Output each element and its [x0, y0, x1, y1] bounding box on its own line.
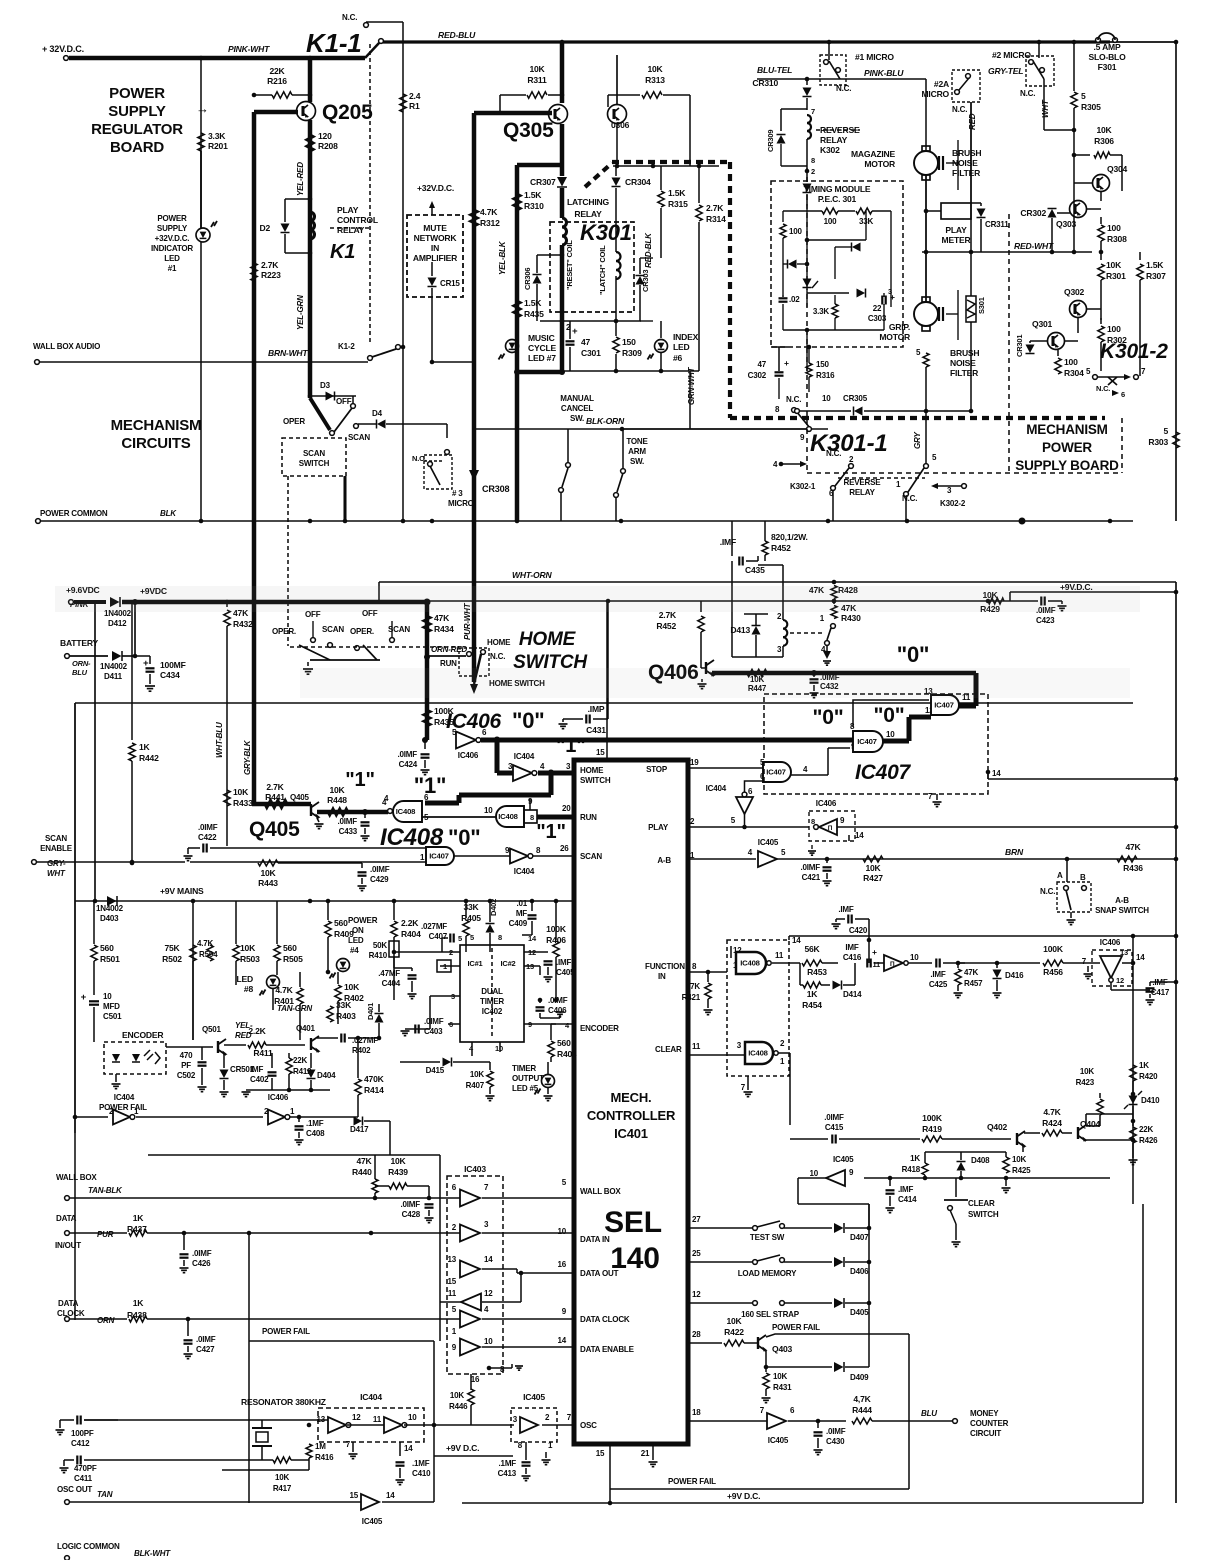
svg-text:BLK-WHT: BLK-WHT [134, 1549, 171, 1558]
capacitor C421 [825, 857, 830, 862]
svg-text:4.7K: 4.7K [197, 939, 214, 948]
svg-text:R312: R312 [480, 218, 500, 228]
svg-text:6: 6 [452, 1183, 457, 1192]
diode D415 [400, 1061, 440, 1063]
svg-text:ARM: ARM [628, 447, 646, 456]
magazine motor [914, 151, 938, 175]
svg-text:IC405: IC405 [523, 1392, 545, 1402]
resistor R412 [288, 1053, 290, 1058]
svg-text:1: 1 [896, 480, 901, 489]
svg-text:CR310: CR310 [752, 78, 778, 88]
resistor R447 on heavy [747, 670, 767, 676]
svg-text:R308: R308 [1107, 234, 1127, 244]
wire [540, 370, 699, 372]
svg-text:15: 15 [596, 1449, 605, 1458]
resistor R416 [308, 1425, 310, 1444]
svg-text:TIMER: TIMER [512, 1064, 536, 1073]
svg-text:11: 11 [692, 1042, 701, 1051]
svg-text:10K: 10K [726, 1316, 742, 1326]
svg-text:27: 27 [692, 1215, 701, 1224]
svg-text:100: 100 [824, 217, 838, 226]
svg-text:18: 18 [692, 1408, 701, 1417]
svg-text:LATCHING: LATCHING [567, 197, 609, 207]
resistor R435 [424, 710, 431, 726]
dashed IC405 box [511, 1408, 557, 1442]
svg-text:7: 7 [484, 1183, 489, 1192]
svg-text:C420: C420 [849, 926, 868, 935]
svg-text:14: 14 [1136, 953, 1145, 962]
svg-text:1K: 1K [133, 1298, 145, 1308]
dashed board boundary [806, 168, 808, 473]
svg-text:1K: 1K [1139, 1061, 1149, 1070]
svg-text:CIRCUITS: CIRCUITS [121, 435, 190, 452]
svg-text:R452: R452 [771, 543, 791, 553]
wire [613, 165, 719, 167]
svg-text:10K: 10K [470, 1070, 485, 1079]
svg-text:C408: C408 [306, 1129, 325, 1138]
resistor R308 [1100, 217, 1102, 224]
capacitor C408x [317, 1037, 338, 1039]
svg-text:"0": "0" [874, 704, 905, 727]
svg-text:MFD: MFD [103, 1002, 120, 1011]
svg-text:3: 3 [947, 486, 952, 495]
svg-text:R439: R439 [388, 1167, 408, 1177]
svg-text:POWER FAIL: POWER FAIL [668, 1477, 716, 1486]
transistor Q305 [549, 105, 568, 124]
svg-text:R401: R401 [274, 996, 294, 1006]
svg-text:SCAN: SCAN [580, 852, 602, 861]
svg-text:Q405: Q405 [249, 818, 300, 841]
resistor R411 [224, 1044, 246, 1046]
resistor R503 [235, 901, 237, 944]
svg-text:R420: R420 [1139, 1072, 1158, 1081]
svg-text:5: 5 [781, 848, 786, 857]
resistor R432 [226, 602, 228, 607]
svg-text:SUPPLY: SUPPLY [108, 103, 166, 120]
svg-text:4: 4 [540, 762, 545, 771]
svg-text:1: 1 [780, 1057, 785, 1066]
transistor Q405 [310, 804, 312, 816]
svg-text:BRUSH: BRUSH [952, 148, 981, 158]
svg-text:YEL-BLK: YEL-BLK [498, 240, 507, 275]
diode into timing [803, 184, 812, 193]
diode D408 [959, 1176, 964, 1181]
svg-text:SCAN: SCAN [348, 433, 370, 442]
capacitor .02 [779, 297, 788, 299]
svg-text:R425: R425 [1012, 1166, 1031, 1175]
diode D411 [70, 655, 108, 657]
svg-text:R441: R441 [265, 792, 285, 802]
svg-text:100: 100 [1064, 357, 1078, 367]
svg-text:N.C.: N.C. [826, 449, 841, 458]
svg-text:LED: LED [673, 342, 690, 352]
svg-text:4: 4 [773, 460, 778, 469]
svg-text:R402: R402 [352, 1046, 371, 1055]
svg-text:IC407: IC407 [766, 768, 786, 777]
svg-text:47: 47 [581, 337, 591, 347]
svg-text:FUNCTION: FUNCTION [645, 962, 685, 971]
svg-text:CLOCK: CLOCK [57, 1309, 85, 1318]
capacitor C412 [68, 1419, 86, 1421]
wire heavy run [537, 815, 574, 820]
svg-text:REGULATOR: REGULATOR [91, 121, 183, 138]
svg-text:SUPPLY: SUPPLY [157, 224, 188, 233]
svg-text:100: 100 [1107, 223, 1121, 233]
svg-text:8: 8 [692, 962, 697, 971]
dual timer IC402 [460, 945, 524, 1042]
wire rail R442 [131, 602, 133, 740]
relay coil K1 [310, 212, 315, 221]
svg-text:RUN: RUN [440, 659, 457, 668]
svg-text:160 SEL STRAP: 160 SEL STRAP [741, 1310, 800, 1319]
svg-text:R452: R452 [656, 621, 676, 631]
svg-text:CR308: CR308 [482, 484, 509, 494]
svg-text:SCAN: SCAN [303, 449, 325, 458]
svg-text:7: 7 [760, 1406, 765, 1415]
wire [379, 1037, 460, 1039]
svg-text:Q403: Q403 [772, 1344, 793, 1354]
svg-text:BLK-ORN: BLK-ORN [586, 416, 625, 426]
svg-text:+: + [872, 947, 877, 957]
svg-text:R432: R432 [233, 619, 253, 629]
svg-text:ENCODER: ENCODER [580, 1024, 619, 1033]
wire osc to ic405 [434, 1424, 514, 1426]
resistor R420 [1132, 1060, 1134, 1064]
svg-text:OPER: OPER [283, 417, 305, 426]
resistor R309 [615, 321, 617, 336]
svg-text:B: B [1080, 873, 1086, 882]
wire [689, 371, 691, 429]
svg-text:.0IMF: .0IMF [196, 1335, 216, 1344]
svg-text:ON: ON [352, 926, 364, 935]
svg-text:R223: R223 [261, 270, 281, 280]
svg-text:100K: 100K [1043, 944, 1064, 954]
svg-text:.0IMF: .0IMF [801, 863, 821, 872]
wire dataout link [370, 1233, 372, 1262]
relay reset coil [562, 218, 567, 227]
dashed IC408 box [727, 940, 789, 1076]
svg-text:INDEX: INDEX [673, 332, 699, 342]
node junction [199, 56, 204, 61]
svg-text:.02: .02 [789, 295, 800, 304]
resistor R414 [357, 1038, 359, 1078]
svg-text:7: 7 [346, 1440, 351, 1449]
svg-text:CONTROL: CONTROL [337, 215, 378, 225]
svg-text:GRIP.: GRIP. [889, 322, 910, 332]
svg-text:C433: C433 [339, 827, 358, 836]
resistor R505 [276, 901, 278, 944]
svg-text:MECHANISM: MECHANISM [1026, 422, 1107, 437]
svg-text:HOME: HOME [519, 629, 577, 650]
svg-text:R456: R456 [1043, 967, 1063, 977]
resistor R424 [1024, 1132, 1040, 1134]
svg-text:2: 2 [777, 612, 782, 621]
svg-text:SCAN: SCAN [45, 834, 67, 843]
resistor R307 [1139, 252, 1141, 260]
svg-text:R448: R448 [327, 795, 347, 805]
svg-text:5: 5 [458, 934, 462, 943]
svg-text:P.E.C. 301: P.E.C. 301 [818, 194, 857, 204]
svg-text:R208: R208 [318, 141, 338, 151]
capacitor C426 [182, 1231, 187, 1236]
resistor R425 [1004, 1176, 1009, 1181]
svg-text:8: 8 [518, 1441, 523, 1450]
svg-text:IC407: IC407 [934, 701, 954, 710]
resistor 3.3K [832, 304, 838, 318]
switch #1 micro [820, 55, 846, 85]
svg-text:7: 7 [741, 1083, 746, 1092]
svg-text:CR302: CR302 [1020, 208, 1046, 218]
svg-text:OSC OUT: OSC OUT [57, 1485, 92, 1494]
capacitor C409 [531, 901, 533, 911]
svg-text:1.5K: 1.5K [524, 298, 542, 308]
resistor R433 [224, 790, 230, 806]
crystal Y1 [261, 1420, 263, 1428]
svg-text:2.7K: 2.7K [261, 260, 279, 270]
svg-text:D2: D2 [259, 223, 270, 233]
svg-text:1N4002: 1N4002 [96, 904, 124, 913]
svg-text:C430: C430 [826, 1437, 845, 1446]
svg-text:K1-1: K1-1 [306, 28, 362, 58]
svg-text:0306: 0306 [611, 120, 630, 130]
svg-text:C434: C434 [160, 670, 180, 680]
svg-text:26: 26 [560, 844, 569, 853]
svg-text:7: 7 [1082, 957, 1087, 966]
svg-text:10K: 10K [450, 1391, 465, 1400]
svg-text:POWER: POWER [109, 85, 165, 102]
svg-text:R453: R453 [807, 967, 827, 977]
svg-text:10: 10 [822, 394, 831, 403]
svg-text:"0": "0" [813, 706, 844, 729]
SCR t3 [803, 279, 812, 288]
svg-text:R305: R305 [1081, 102, 1101, 112]
svg-text:16: 16 [471, 1375, 480, 1384]
transistor Q306 [616, 55, 618, 104]
svg-text:R416: R416 [315, 1453, 334, 1462]
svg-text:MOTOR: MOTOR [879, 332, 910, 342]
resistor R223 [251, 263, 257, 281]
wire [188, 1318, 460, 1320]
svg-text:+: + [81, 992, 87, 1003]
svg-text:WHT-BLU: WHT-BLU [215, 722, 224, 758]
resistor R314 [698, 166, 700, 203]
svg-text:1K: 1K [139, 742, 151, 752]
diode D412 [74, 600, 106, 604]
svg-text:10: 10 [809, 1169, 818, 1178]
svg-text:8: 8 [811, 156, 815, 165]
svg-text:CYCLE: CYCLE [528, 343, 556, 353]
svg-text:IC408: IC408 [740, 959, 760, 968]
svg-text:C416: C416 [843, 953, 862, 962]
resistor R406 [555, 901, 557, 940]
svg-text:R404: R404 [401, 929, 421, 939]
resistor R407 [489, 1062, 491, 1070]
svg-text:1.5K: 1.5K [668, 188, 686, 198]
svg-text:CR301: CR301 [1015, 335, 1024, 357]
svg-text:RED: RED [968, 113, 977, 130]
node 14 [986, 770, 991, 775]
svg-text:CR306: CR306 [523, 268, 532, 290]
svg-text:R405: R405 [461, 913, 481, 923]
svg-text:"0": "0" [897, 642, 930, 667]
svg-text:2: 2 [849, 455, 854, 464]
svg-text:C411: C411 [74, 1474, 93, 1483]
svg-text:5: 5 [916, 348, 921, 357]
money counter [953, 1419, 958, 1424]
svg-text:CR307: CR307 [530, 177, 556, 187]
svg-text:SW.: SW. [630, 457, 644, 466]
svg-text:"1": "1" [414, 773, 447, 798]
svg-text:#4: #4 [350, 946, 359, 955]
svg-text:IC404: IC404 [706, 784, 727, 793]
wire [191, 899, 196, 904]
svg-text:10K: 10K [390, 1156, 406, 1166]
svg-text:PINK-WHT: PINK-WHT [228, 44, 270, 54]
wire [783, 329, 884, 331]
svg-text:FILTER: FILTER [952, 168, 980, 178]
svg-text:TAN: TAN [97, 1490, 113, 1499]
svg-text:6: 6 [424, 793, 429, 802]
svg-text:15: 15 [596, 748, 605, 757]
wire dashed [287, 476, 289, 646]
svg-text:14: 14 [484, 1255, 493, 1264]
svg-text:C426: C426 [192, 1259, 211, 1268]
svg-text:11: 11 [872, 960, 880, 969]
resistor R402 [337, 972, 339, 984]
svg-text:R504: R504 [199, 950, 218, 959]
svg-text:N.C.: N.C. [902, 494, 917, 503]
dashed IC403 box [447, 1176, 503, 1374]
svg-text:IMF: IMF [845, 943, 859, 952]
wire power fail vert [439, 1155, 441, 1341]
svg-text:2.4: 2.4 [409, 91, 421, 101]
svg-text:IC408: IC408 [498, 812, 518, 821]
svg-text:R442: R442 [139, 753, 159, 763]
resistor R1 [400, 94, 406, 112]
svg-text:10K: 10K [275, 1473, 290, 1482]
svg-text:D4: D4 [372, 409, 383, 418]
svg-text:DATA IN: DATA IN [580, 1235, 610, 1244]
svg-text:16: 16 [557, 1260, 566, 1269]
svg-text:R310: R310 [524, 201, 544, 211]
diode CR501 [223, 1053, 225, 1068]
svg-text:PLAY: PLAY [945, 225, 967, 235]
wire [723, 1204, 725, 1207]
dashed IC407 box [764, 694, 988, 794]
capacitor C405 [547, 952, 549, 957]
svg-text:POWER: POWER [157, 214, 187, 223]
svg-text:#1: #1 [168, 264, 177, 273]
svg-text:8: 8 [775, 405, 780, 414]
svg-text:R423: R423 [1076, 1078, 1095, 1087]
svg-text:R443: R443 [258, 878, 278, 888]
svg-text:MONEY: MONEY [970, 1409, 999, 1418]
diode CR15 [431, 262, 433, 276]
svg-text:CIRCUIT: CIRCUIT [970, 1429, 1001, 1438]
svg-text:K302: K302 [820, 145, 840, 155]
svg-text:MUSIC: MUSIC [528, 333, 555, 343]
wire PUR-WHT heavy [472, 648, 477, 682]
svg-text:C402: C402 [250, 1075, 269, 1084]
wire encoder pin [551, 1023, 574, 1025]
wire dashed linkage [290, 646, 459, 648]
svg-text:MECH.: MECH. [611, 1090, 652, 1105]
svg-text:R431: R431 [773, 1383, 792, 1392]
svg-text:7: 7 [567, 1413, 572, 1422]
svg-text:SWITCH: SWITCH [299, 459, 330, 468]
svg-text:BRN: BRN [1005, 847, 1024, 857]
svg-text:3.3K: 3.3K [813, 307, 830, 316]
svg-text:D404: D404 [317, 1071, 336, 1080]
svg-text:CR305: CR305 [843, 394, 868, 403]
svg-text:N.C.: N.C. [952, 105, 967, 114]
wire heavy Q305 collector [560, 42, 565, 103]
capacitor C302 [775, 371, 784, 373]
svg-text:OUTPUT: OUTPUT [512, 1074, 544, 1083]
svg-text:IC403: IC403 [464, 1164, 486, 1174]
svg-text:ORN-: ORN- [72, 659, 91, 668]
svg-text:R446: R446 [449, 1402, 468, 1411]
resistor R436 [1065, 857, 1070, 862]
svg-text:PF: PF [181, 1061, 191, 1070]
svg-text:100K: 100K [922, 1113, 943, 1123]
wire base heavy [474, 111, 552, 116]
svg-text:GRY-TEL: GRY-TEL [988, 66, 1023, 76]
svg-text:5: 5 [562, 1178, 567, 1187]
svg-text:5: 5 [731, 816, 736, 825]
svg-text:PLAY: PLAY [337, 205, 359, 215]
svg-text:.0IMF: .0IMF [198, 823, 218, 832]
diode D410 [1129, 1096, 1138, 1105]
capacitor C433 [364, 812, 366, 818]
wire heavy [472, 113, 477, 648]
wire [432, 361, 474, 363]
svg-text:"RESET" COIL: "RESET" COIL [565, 240, 574, 290]
svg-text:CR311: CR311 [985, 220, 1009, 229]
wire dashed K1 linkage [330, 227, 370, 229]
svg-text:TIMING MODULE: TIMING MODULE [804, 184, 871, 194]
svg-text:10K: 10K [329, 785, 345, 795]
svg-text:.IMF: .IMF [838, 905, 854, 914]
wire heavy up [974, 673, 979, 706]
resistor R502 [190, 945, 196, 961]
thermal S301 [966, 296, 976, 322]
svg-text:RESONATOR 380KHZ: RESONATOR 380KHZ [241, 1397, 326, 1407]
svg-text:3: 3 [777, 645, 782, 654]
svg-text:22K: 22K [1139, 1125, 1154, 1134]
LED #6 index [660, 321, 662, 338]
svg-text:.47MF: .47MF [378, 969, 400, 978]
svg-text:.0IMF: .0IMF [192, 1249, 212, 1258]
svg-text:TAN-BLK: TAN-BLK [88, 1186, 123, 1195]
resistor R434 [424, 616, 431, 632]
svg-text:R454: R454 [802, 1000, 822, 1010]
svg-text:YEL-GRN: YEL-GRN [296, 295, 305, 330]
svg-text:K302-1: K302-1 [790, 482, 816, 491]
scan switch label [282, 438, 346, 476]
svg-text:IC408: IC408 [396, 807, 416, 816]
svg-text:FILTER: FILTER [950, 368, 978, 378]
wire +9V thin right [427, 600, 1010, 602]
160 sel strap [753, 1301, 758, 1306]
resistor R452 [700, 601, 702, 612]
svg-text:R422: R422 [724, 1327, 744, 1337]
wire [200, 58, 202, 228]
svg-text:MICRO: MICRO [448, 499, 474, 508]
resistor R304 [1057, 350, 1059, 356]
relay latch coil [616, 252, 621, 261]
svg-text:LED: LED [237, 974, 254, 984]
